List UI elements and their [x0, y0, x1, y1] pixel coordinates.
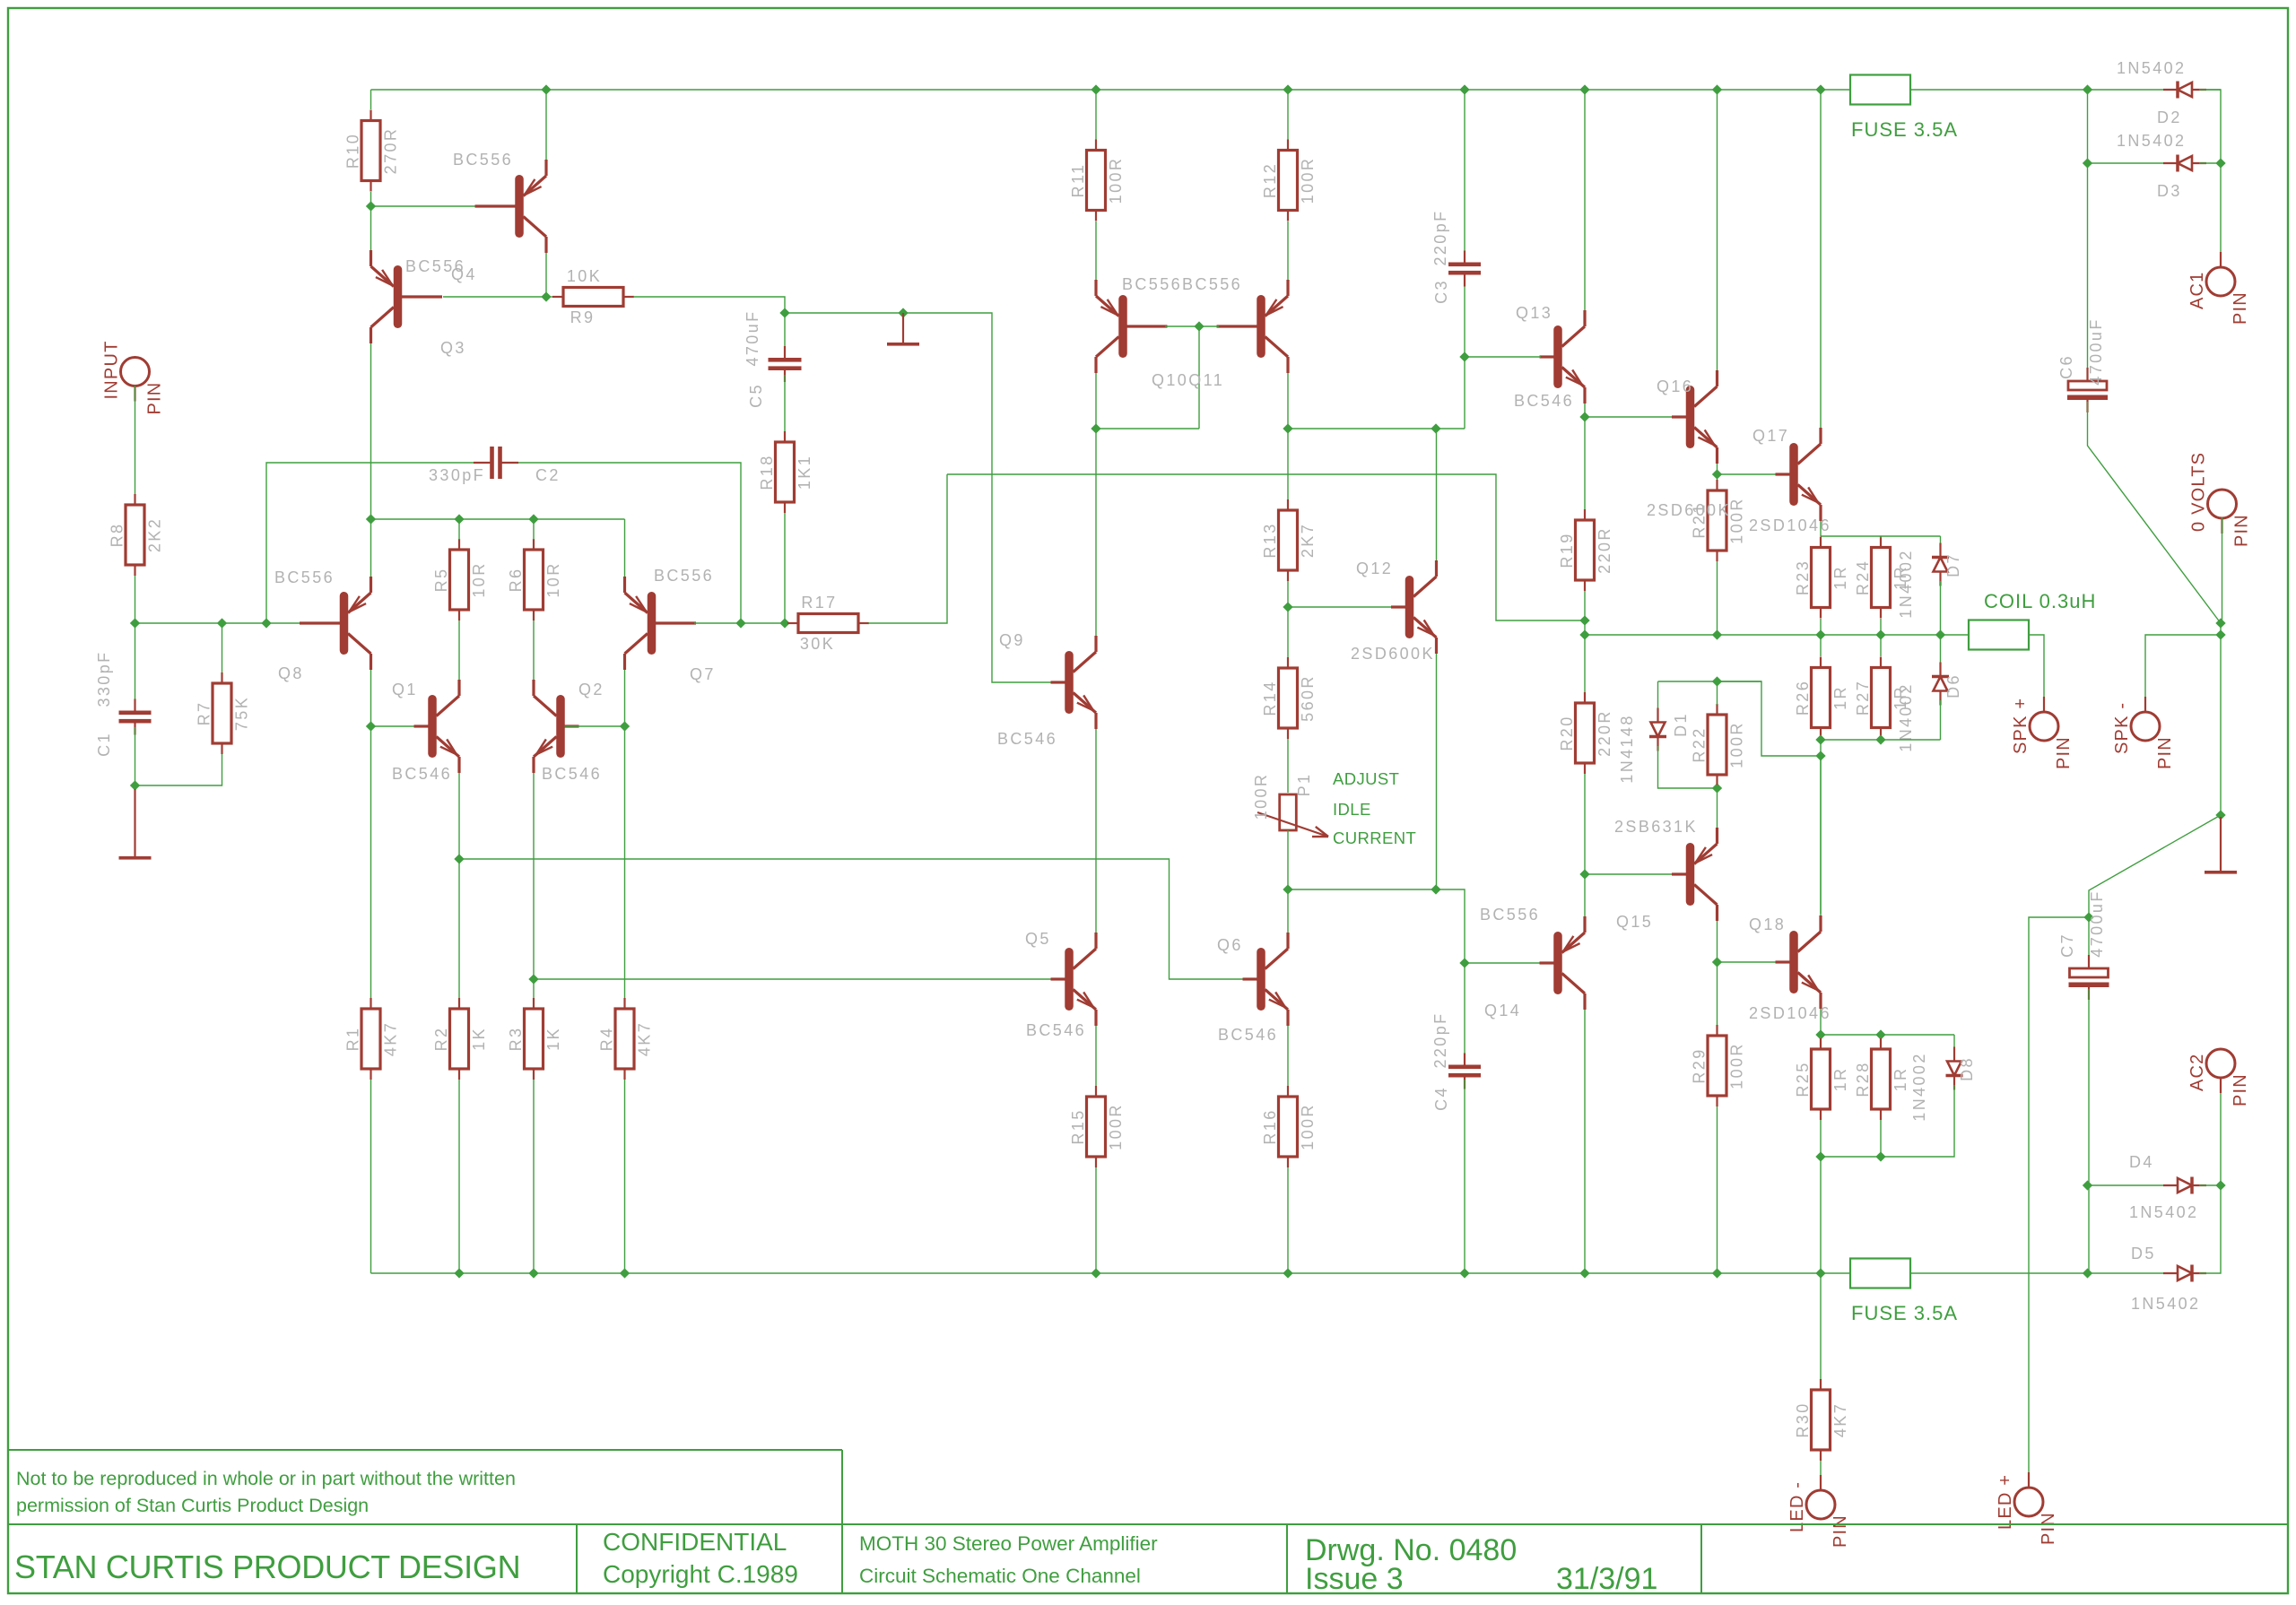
label 2SD1046 Q17 — [1749, 516, 1831, 534]
junction C5 top / gnd line — [779, 308, 789, 317]
svg-text:Q2: Q2 — [578, 681, 604, 698]
svg-text:1R: 1R — [1892, 1067, 1909, 1092]
label Q17 — [1752, 427, 1789, 445]
svg-text:100R: 100R — [1107, 157, 1125, 204]
label P1 value — [1252, 773, 1270, 820]
label C7 value — [2088, 889, 2106, 957]
svg-text:BC556BC556: BC556BC556 — [1122, 275, 1242, 293]
wire R13 bottom — [1287, 581, 1289, 607]
svg-text:PIN: PIN — [2039, 1512, 2058, 1545]
ground mid — [887, 313, 919, 346]
wire R24 top — [1880, 536, 1882, 538]
svg-text:BC546: BC546 — [1514, 392, 1574, 410]
diode D1 1N4148 — [1649, 708, 1666, 751]
label C1 — [95, 732, 113, 757]
svg-text:1N5402: 1N5402 — [2131, 1295, 2200, 1313]
svg-text:R27: R27 — [1854, 680, 1872, 716]
pin SPK+ — [2011, 697, 2074, 769]
svg-text:100R: 100R — [1299, 157, 1317, 204]
transistor Q12 2SD600K — [1391, 560, 1437, 654]
wire rail to R10 — [370, 90, 372, 109]
wire D8 bottom — [1821, 1085, 1954, 1157]
wire Q8 collector down — [370, 670, 372, 726]
wire base tie down — [1198, 326, 1200, 429]
svg-text:R23: R23 — [1794, 560, 1812, 595]
svg-text:R22: R22 — [1691, 726, 1709, 762]
diode D8 1N4002 — [1946, 1047, 1963, 1090]
resistor R20 — [1558, 692, 1613, 774]
junction D3 right — [2215, 158, 2225, 168]
fuse F2 — [1850, 1259, 1910, 1288]
svg-text:Copyright C.1989: Copyright C.1989 — [603, 1560, 798, 1588]
resistor R15 — [1069, 1086, 1125, 1167]
junction Q12 collector at VAS line — [1431, 423, 1440, 433]
label 1N4002 D6 — [1897, 682, 1915, 751]
wire R19 top — [1584, 417, 1586, 510]
svg-text:R25: R25 — [1794, 1061, 1812, 1097]
label P1 — [1295, 773, 1313, 797]
label ADJUST — [1333, 769, 1399, 788]
resistor R21 — [1691, 480, 1746, 561]
wire Q18 collector up — [1820, 756, 1822, 915]
resistor R1 — [344, 998, 400, 1080]
wire C1 bottom — [135, 727, 136, 785]
wire C2 right — [518, 463, 741, 623]
wire R26 top — [1820, 635, 1822, 656]
svg-text:Q16: Q16 — [1657, 377, 1693, 395]
wire Q13 base — [1465, 356, 1541, 358]
junction R15 rail — [1091, 1268, 1100, 1278]
wire Q12 emitter down — [1436, 654, 1438, 889]
wire Q1 base — [371, 725, 416, 727]
ground 0V — [2205, 817, 2237, 874]
junction Q13 collector rail — [1579, 84, 1589, 94]
label D2 — [2157, 108, 2182, 126]
wire to ground stub — [135, 785, 136, 805]
label Q7 — [690, 665, 716, 683]
wire Q14 collector down — [1584, 1010, 1586, 1273]
wire P1 bottom — [1287, 830, 1289, 889]
wire Q7 collector to R4 — [624, 726, 626, 1001]
label IDLE — [1333, 800, 1371, 819]
svg-text:CONFIDENTIAL: CONFIDENTIAL — [603, 1528, 787, 1556]
svg-text:Q6: Q6 — [1217, 936, 1243, 954]
label C5 value — [744, 309, 761, 366]
svg-text:LED +: LED + — [1996, 1474, 2015, 1530]
wire Q13 collector up — [1584, 90, 1586, 310]
pin AC2 — [2187, 1049, 2250, 1106]
junction Q4 emitter rail — [541, 84, 551, 94]
junction gnd stub — [898, 308, 908, 317]
wire Q9 emitter down — [1095, 729, 1097, 933]
wire Q18 base line — [1718, 961, 1778, 963]
label BC546 Q2 — [542, 765, 602, 783]
diode D6 1N4002 — [1932, 663, 1949, 706]
junction rail fuse2 node — [1815, 1268, 1825, 1278]
junction R28 bottom — [1875, 1151, 1885, 1161]
label C3 value — [1431, 209, 1449, 265]
wire R24 bottom — [1880, 619, 1882, 635]
svg-text:100R: 100R — [1728, 721, 1746, 768]
text project line1 — [859, 1532, 1158, 1555]
svg-text:31/3/91: 31/3/91 — [1556, 1562, 1657, 1596]
junction Q14 collector rail — [1579, 1268, 1589, 1278]
wire Q11 collector line to C3 — [1288, 428, 1465, 429]
label FUSE 3.5A top — [1851, 118, 1958, 141]
wire R3 top — [533, 979, 535, 999]
wire C2 left — [266, 463, 474, 623]
junction R18 at Q7 base line — [779, 618, 789, 628]
wire R30 top — [1820, 1273, 1822, 1380]
wire Q6 collector up — [1287, 889, 1289, 933]
svg-text:10R: 10R — [470, 561, 488, 597]
resistor R18 — [758, 431, 813, 513]
ground input — [119, 789, 152, 860]
label C5 — [747, 383, 765, 408]
label C6 — [2057, 354, 2075, 379]
svg-text:R10: R10 — [344, 133, 362, 169]
svg-text:220pF: 220pF — [1431, 1011, 1449, 1068]
junction Q15 emitter / D1 / R22 — [1712, 783, 1722, 793]
wire D1 top rail — [1658, 681, 1762, 682]
junction R7 tap — [217, 618, 227, 628]
label D4 — [2129, 1153, 2154, 1171]
wire R30 bottom — [1820, 1461, 1822, 1491]
wire Q14 emitter up — [1584, 874, 1586, 916]
svg-text:COIL 0.3uH: COIL 0.3uH — [1984, 590, 2096, 612]
svg-text:2SD1046: 2SD1046 — [1749, 516, 1831, 534]
pin INPUT — [102, 341, 165, 415]
label 1N5402 D5 — [2131, 1295, 2200, 1313]
text drawing no — [1305, 1533, 1517, 1567]
svg-text:C3: C3 — [1432, 279, 1450, 304]
label BC556 Q8 — [274, 568, 335, 586]
junction Q11 collector / R13 — [1283, 423, 1292, 433]
pin LED+ — [1996, 1472, 2058, 1545]
transistor Q6 BC546 — [1243, 933, 1289, 1026]
wire R7 top — [222, 623, 223, 672]
wire Q9 base — [992, 675, 1052, 682]
svg-text:R8: R8 — [109, 523, 126, 548]
wire lower node vertical — [1820, 740, 1822, 914]
svg-text:R14: R14 — [1261, 680, 1279, 716]
resistor R2 — [432, 998, 488, 1080]
junction Q7 collector / Q2 base / R4 — [620, 721, 630, 731]
pin SPK- — [2112, 697, 2175, 769]
transistor Q3 BC556 — [371, 250, 443, 343]
svg-text:Q4: Q4 — [451, 265, 477, 283]
label 2SD1046 Q18 — [1749, 1004, 1831, 1022]
svg-text:1N4002: 1N4002 — [1897, 682, 1915, 751]
junction R26 bottom — [1815, 734, 1825, 744]
wire rail to R11 — [1095, 90, 1097, 140]
junction R6 top — [528, 514, 538, 524]
wire D6 bottom — [1940, 700, 1942, 740]
wire C7 top lead — [2088, 917, 2090, 965]
svg-text:P1: P1 — [1295, 773, 1313, 797]
label Q15 — [1616, 913, 1653, 931]
wire Q7 base to C2/R18 node — [694, 622, 785, 624]
wire R22 top stub — [1717, 681, 1718, 705]
svg-text:permission of Stan Curtis Prod: permission of Stan Curtis Product Design — [16, 1495, 369, 1516]
wire R7 bottom — [135, 754, 222, 785]
wire Q15 emitter up — [1717, 788, 1718, 828]
svg-text:2SD600K: 2SD600K — [1647, 501, 1731, 519]
svg-text:R3: R3 — [507, 1027, 525, 1052]
title block divider 2 — [841, 1524, 843, 1593]
resistor R10 — [344, 110, 400, 192]
wire V- rail after fuse — [1910, 1272, 2124, 1274]
svg-text:1N4002: 1N4002 — [1897, 549, 1915, 618]
wire Q15 base line — [1585, 873, 1674, 875]
svg-text:R16: R16 — [1261, 1108, 1279, 1144]
wire R15 bottom — [1095, 1167, 1097, 1273]
wire Q15 collector down — [1717, 921, 1718, 962]
wire Q16 base line — [1585, 416, 1674, 418]
wire Q12 base — [1288, 606, 1393, 608]
wire Q11 collector down — [1287, 373, 1289, 429]
wire Q3 collector down — [370, 343, 372, 519]
label Q18 — [1749, 915, 1786, 933]
junction R24 output — [1875, 629, 1885, 639]
wire LED+ branch — [2029, 917, 2089, 1488]
svg-text:2SB631K: 2SB631K — [1614, 818, 1698, 836]
wire Q16 collector up — [1717, 90, 1718, 370]
wire Q6 emitter down — [1287, 1026, 1289, 1087]
resistor R3 — [507, 998, 562, 1080]
resistor R6 — [507, 539, 562, 620]
svg-text:330pF: 330pF — [95, 650, 113, 707]
resistor R30 — [1794, 1379, 1849, 1461]
transistor Q7 BC556 — [625, 577, 697, 670]
wire D1R22 top to node — [1718, 681, 1822, 756]
svg-text:R28: R28 — [1854, 1061, 1872, 1097]
junction R20 / Q14 emitter / Q15 base — [1579, 869, 1589, 879]
wire D5 to corner — [2199, 1185, 2221, 1273]
title block copyright box — [9, 1450, 842, 1524]
svg-text:D5: D5 — [2131, 1245, 2156, 1262]
label BC556 Q3 — [405, 257, 465, 275]
wire D4 row — [2088, 1184, 2171, 1186]
svg-text:Issue 3: Issue 3 — [1305, 1562, 1404, 1596]
svg-text:100R: 100R — [1299, 1103, 1317, 1150]
svg-text:1K1: 1K1 — [796, 455, 813, 490]
svg-text:AC2: AC2 — [2187, 1053, 2207, 1091]
wire R21 bottom — [1717, 561, 1718, 635]
svg-text:220R: 220R — [1596, 709, 1613, 757]
junction C2 right at Q7 base line — [735, 618, 745, 628]
svg-text:470uF: 470uF — [744, 309, 761, 366]
svg-text:1N5402: 1N5402 — [2129, 1203, 2198, 1221]
junction Q12 emitter at bias bottom — [1431, 884, 1440, 894]
junction C2 tap — [261, 618, 271, 628]
label D3 — [2157, 182, 2182, 200]
capacitor C1 — [119, 699, 152, 735]
resistor R26 — [1794, 657, 1849, 739]
junction rail C3 — [1459, 84, 1469, 94]
svg-text:Q10Q11: Q10Q11 — [1152, 371, 1224, 389]
wire R29 top — [1717, 962, 1718, 1026]
wire input line to Q8 base — [135, 622, 302, 624]
resistor R14 — [1261, 657, 1317, 739]
wire 0V pin down — [2222, 517, 2223, 623]
label Q13 — [1516, 304, 1552, 322]
junction feedback at R19 bottom — [1579, 615, 1589, 625]
title block divider 1 — [576, 1524, 578, 1593]
wire Q10 collector down — [1095, 373, 1097, 429]
label 1N4002 D8 — [1910, 1052, 1928, 1121]
resistor R19 — [1558, 509, 1613, 591]
wire VAS line to C3 — [1464, 279, 1465, 429]
svg-text:PIN: PIN — [2054, 736, 2074, 769]
text date — [1556, 1562, 1657, 1596]
transistor Q18 2SD1046 — [1776, 915, 1822, 1009]
svg-text:270R: 270R — [382, 127, 400, 175]
label 1N5402 D2 — [2117, 59, 2186, 77]
svg-text:Q3: Q3 — [440, 339, 466, 357]
transistor Q10 BC556 — [1096, 280, 1168, 373]
svg-text:4K7: 4K7 — [636, 1021, 654, 1056]
svg-text:D2: D2 — [2157, 108, 2182, 126]
wire D1 top lead — [1657, 681, 1659, 713]
label Q9 — [999, 631, 1025, 649]
label C6 value — [2087, 317, 2105, 385]
junction Q2 emitter / R3 / Q5 base line — [528, 974, 538, 984]
wire tail line — [371, 518, 625, 520]
junction R22 top — [1712, 676, 1722, 686]
resistor R24 — [1854, 537, 1909, 619]
svg-text:D4: D4 — [2129, 1153, 2154, 1171]
wire R26/R27/D6 bottom line — [1821, 739, 1941, 741]
svg-text:1K: 1K — [544, 1027, 562, 1051]
svg-text:C7: C7 — [2058, 933, 2076, 958]
diode D3 1N5402 — [2163, 155, 2206, 172]
inductor COIL — [1969, 620, 2029, 650]
svg-text:R20: R20 — [1558, 715, 1576, 750]
svg-text:R13: R13 — [1261, 522, 1279, 558]
wire Q13 emitter down — [1584, 403, 1586, 417]
label Q3 — [440, 339, 466, 357]
svg-text:R29: R29 — [1691, 1047, 1709, 1083]
svg-text:1R: 1R — [1831, 685, 1849, 710]
pin 0 VOLTS — [2189, 452, 2252, 547]
wire R2 top — [458, 859, 460, 999]
junction Q10/Q11 bases — [1194, 321, 1204, 331]
wire C6 bottom — [2088, 402, 2222, 623]
svg-text:IDLE: IDLE — [1333, 800, 1371, 819]
junction 0V output tie — [2215, 629, 2225, 639]
label D6 — [1944, 673, 1962, 698]
wire Q18 emitter down — [1820, 1009, 1822, 1035]
potentiometer P1 — [1257, 794, 1328, 837]
junction Q18 emitter / R25 / R28 — [1815, 1029, 1825, 1039]
svg-text:R5: R5 — [432, 568, 450, 593]
capacitor C7 — [2069, 955, 2109, 1000]
transistor Q9 BC546 — [1051, 636, 1097, 729]
resistor R23 — [1794, 537, 1849, 619]
svg-text:C2: C2 — [535, 466, 561, 484]
wire R2 bottom — [458, 1080, 460, 1273]
svg-text:BC546: BC546 — [997, 730, 1057, 748]
wire Q7 collector down — [624, 670, 626, 726]
junction R23 output — [1815, 629, 1825, 639]
svg-text:R9: R9 — [570, 308, 596, 326]
svg-text:1R: 1R — [1831, 565, 1849, 590]
transistor Q1 BC546 — [414, 680, 460, 773]
svg-text:SPK +: SPK + — [2011, 698, 2031, 754]
transistor Q8 BC556 — [300, 577, 371, 670]
label 1N5402 D4 — [2129, 1203, 2198, 1221]
capacitor C6 — [2067, 368, 2108, 412]
svg-text:SPK -: SPK - — [2112, 702, 2132, 754]
svg-text:CURRENT: CURRENT — [1333, 829, 1416, 847]
wire R27 bottom — [1880, 739, 1882, 740]
label C4 value — [1431, 1011, 1449, 1068]
svg-text:4700uF: 4700uF — [2087, 317, 2105, 385]
wire R22 bottom stub — [1717, 785, 1718, 788]
label BC556 Q4 — [453, 151, 513, 169]
svg-text:Circuit Schematic One Channel: Circuit Schematic One Channel — [859, 1565, 1141, 1587]
svg-text:Q12: Q12 — [1356, 560, 1393, 577]
label BC556BC556 — [1122, 275, 1242, 293]
transistor Q2 BC546 — [534, 680, 579, 773]
junction C7 top — [2083, 912, 2093, 922]
svg-text:BC546: BC546 — [1026, 1021, 1086, 1039]
label C2 — [535, 466, 561, 484]
svg-text:R24: R24 — [1854, 560, 1872, 595]
label Q1 — [392, 681, 418, 698]
wire Q4 emitter to rail — [545, 90, 547, 160]
label 1N5402 D3 — [2117, 132, 2186, 150]
wire Q2 emitter down — [533, 773, 535, 979]
svg-text:Q1: Q1 — [392, 681, 418, 698]
label BC556 Q14 — [1480, 906, 1540, 924]
wire Q3 base to node — [443, 296, 546, 298]
svg-text:Q14: Q14 — [1484, 1002, 1521, 1019]
wire R6 top — [533, 519, 535, 540]
svg-text:BC546: BC546 — [1218, 1026, 1278, 1044]
svg-text:R11: R11 — [1069, 163, 1087, 198]
junction Q16 emitter / R21 / Q17 base — [1712, 469, 1722, 479]
wire R19 bottom — [1584, 591, 1586, 635]
svg-text:STAN CURTIS PRODUCT DESIGN: STAN CURTIS PRODUCT DESIGN — [14, 1549, 520, 1585]
junction input node — [130, 618, 140, 628]
svg-text:R19: R19 — [1558, 532, 1576, 568]
junction C7 rail — [2083, 1268, 2092, 1278]
label D5 — [2131, 1245, 2156, 1262]
svg-text:Q13: Q13 — [1516, 304, 1552, 322]
svg-text:R30: R30 — [1794, 1401, 1812, 1437]
junction 0V a — [2215, 618, 2225, 628]
wire Q5 emitter down — [1095, 1026, 1097, 1087]
resistor R9 — [552, 267, 634, 326]
svg-text:Q18: Q18 — [1749, 915, 1786, 933]
wire R16 bottom — [1287, 1167, 1289, 1273]
wire R23/R24 top line — [1821, 535, 1941, 537]
wire R27 top — [1880, 635, 1882, 656]
wire D4 right — [2199, 1184, 2221, 1186]
label C4 — [1432, 1086, 1450, 1111]
svg-text:PIN: PIN — [2231, 1073, 2250, 1106]
svg-text:100R: 100R — [1107, 1103, 1125, 1150]
wire Q3 emitter up — [370, 206, 372, 250]
junction Q15 collector / Q18 base / R29 — [1712, 957, 1722, 967]
svg-text:FUSE 3.5A: FUSE 3.5A — [1851, 1302, 1958, 1324]
svg-text:330pF: 330pF — [429, 466, 485, 484]
wire AC2 lead — [2220, 1077, 2222, 1185]
svg-text:100R: 100R — [1252, 773, 1270, 820]
junction D7 output — [1935, 629, 1945, 639]
